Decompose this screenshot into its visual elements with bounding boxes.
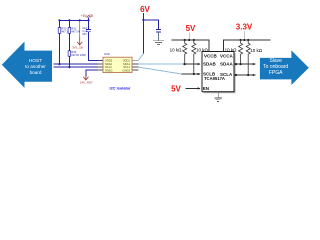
body [103, 57, 132, 72]
wire end arrow SCLA [253, 74, 256, 76]
svg-text:SDAA: SDAA [220, 62, 234, 67]
svg-text:VDD2: VDD2 [105, 59, 113, 63]
wire 6V down to VDD1 [142, 20, 144, 54]
svg-text:10 kΩ: 10 kΩ [170, 48, 183, 53]
svg-text:GND1: GND1 [123, 68, 131, 72]
svg-text:3V3_SB: 3V3_SB [72, 45, 83, 49]
junction dots SCLA [235, 74, 237, 76]
resistor R1 10k (SDAB pull-up) [170, 40, 187, 64]
junction SDAB/pull-up [184, 63, 186, 65]
junction dots 3.3V rail [240, 39, 242, 41]
svg-text:5V: 5V [171, 84, 181, 93]
svg-text:3.3V: 3.3V [236, 23, 253, 32]
power port 3V3_SB (down arrow) [72, 37, 83, 50]
wire SDAA [234, 63, 256, 65]
svg-text:to another: to another [25, 64, 46, 69]
wire VDD2 corner [89, 32, 104, 61]
svg-text:16V: 16V [82, 32, 87, 36]
svg-text:TCA9517A: TCA9517A [204, 76, 225, 81]
ground below TCA9517A [214, 98, 222, 102]
wire 5V pull-up rail [171, 40, 209, 52]
wire 3.3V pull-up rail [224, 40, 271, 52]
resistor R3 10k (SDAA pull-up) [225, 40, 243, 64]
svg-text:24V_RET: 24V_RET [80, 80, 93, 84]
wire column 4 (VDD2 feed) [88, 20, 90, 29]
wire SCL1 to SCLB (cyan diagonal) [139, 67, 182, 74]
wire SDA1 to SDAB (cyan) [139, 63, 184, 65]
wire SDAB (black segment) [183, 63, 200, 65]
svg-text:I2C Isolator: I2C Isolator [110, 85, 132, 90]
capacitor C13 (6V decoupling) [156, 30, 161, 32]
svg-text:SDAB: SDAB [203, 62, 217, 67]
svg-text:10 kΩ: 10 kΩ [250, 48, 263, 53]
svg-text:GND2: GND2 [105, 68, 113, 72]
wire EN [186, 87, 201, 89]
junction SCL2/pull-up [68, 66, 70, 68]
wire column 2 (SCL pull-up branch) [68, 20, 70, 67]
wire top-left 5V rail [60, 19, 89, 21]
power port +5V_SB (top-left) [81, 14, 94, 20]
IC U30 I2C isolator [98, 52, 139, 73]
wire end arrow SDAA [253, 63, 256, 65]
slave connector arrow [260, 50, 309, 85]
junction dots on top-left rail [58, 19, 60, 21]
junction 6V [142, 19, 144, 21]
power flag 6V [140, 5, 150, 20]
pin arrow SCLB [198, 73, 201, 75]
svg-text:EN: EN [203, 86, 209, 91]
host connector arrow [2, 42, 52, 88]
svg-text:0R 5% 1608: 0R 5% 1608 [71, 53, 86, 57]
wire column 1 (SDA pull-up branch) [59, 20, 61, 64]
wire 6V rail [143, 20, 158, 30]
resistor R2 10k (SCLB pull-up) [192, 40, 209, 74]
pin stubs right [132, 59, 139, 61]
pin arrow EN [198, 87, 201, 89]
pin stubs left [98, 59, 104, 61]
svg-text:10 kΩ: 10 kΩ [225, 48, 238, 53]
svg-text:VCCA: VCCA [220, 53, 234, 58]
wire 3.3V feed [243, 31, 245, 40]
wire TCA ground stub [217, 92, 219, 98]
power ground 24V_RET (down arrow port) [80, 77, 93, 85]
svg-text:U30: U30 [104, 52, 110, 56]
wire capacitor to ground [158, 32, 160, 41]
wire 5V feed [188, 33, 190, 41]
wire GND2 [86, 70, 103, 76]
wire VDD1 diagonal (cyan) [139, 54, 144, 61]
junction SDA2/pull-up [58, 63, 60, 65]
svg-text:FPGA: FPGA [269, 70, 283, 76]
svg-text:VDD1: VDD1 [123, 59, 131, 63]
svg-text:6V: 6V [140, 5, 150, 14]
svg-text:VCCB: VCCB [204, 53, 218, 58]
svg-text:5V: 5V [186, 24, 196, 33]
resistor R31 [68, 27, 81, 34]
svg-text:+5V_SB: +5V_SB [81, 14, 94, 18]
wire SCLB (black segment) [182, 73, 201, 75]
capacitor C12 [82, 26, 91, 36]
resistor R30 [58, 27, 71, 34]
wire column 3 (power flag branch) [79, 20, 81, 36]
wire SDA2 [54, 63, 104, 65]
resistor R4 10k (SCLA pull-up) [246, 40, 263, 75]
ground (6V decoupling) [153, 41, 164, 45]
wire SCLA [234, 74, 256, 76]
wire SCL2 [54, 66, 104, 68]
junction dots 5V rail [184, 39, 186, 41]
svg-text:board: board [30, 70, 42, 75]
junction SCLB/pull-up [193, 73, 195, 75]
resistor R40 [68, 50, 86, 57]
junction dots SDAA [235, 63, 237, 65]
pin arrow SDAB [198, 63, 201, 65]
IC U1 TCA9517A [202, 52, 236, 94]
